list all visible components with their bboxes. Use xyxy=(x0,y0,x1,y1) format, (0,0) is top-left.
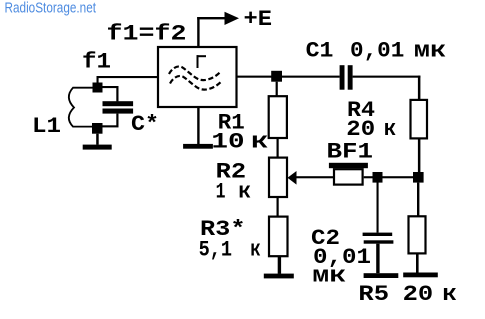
svg-text:f1: f1 xyxy=(82,50,111,75)
ground under filter box xyxy=(183,144,213,149)
node B junction square xyxy=(413,172,424,183)
resistor R4 xyxy=(411,100,428,138)
wire BF1 right to node B xyxy=(364,176,414,178)
wire filter box bottom xyxy=(197,107,199,144)
wire R4 to node B xyxy=(418,138,421,172)
junction square bottom of L1 xyxy=(92,123,103,134)
filter box U1 xyxy=(158,47,237,107)
svg-text:0,01: 0,01 xyxy=(350,39,404,64)
ground under R3 xyxy=(264,274,294,279)
power +E arrowhead xyxy=(225,12,240,25)
wire filter box left to node f1 xyxy=(97,76,159,84)
svg-text:к: к xyxy=(238,179,251,204)
wire +E riser xyxy=(197,17,226,48)
svg-text:5,1: 5,1 xyxy=(199,237,232,262)
svg-text:+E: +E xyxy=(244,7,273,32)
wire node A to C1 xyxy=(282,76,340,78)
wire wiper to BF1 xyxy=(297,176,334,178)
svg-text:20: 20 xyxy=(403,282,434,307)
capacitor C1 xyxy=(340,65,353,90)
wire R1 to R2 xyxy=(277,138,279,158)
R2 wiper arrowhead xyxy=(288,171,297,185)
filter wave 2 xyxy=(170,76,222,90)
wire R1 node A to R1 top xyxy=(276,82,278,97)
ground under L1 xyxy=(83,134,112,150)
filter wave 1 xyxy=(169,66,221,80)
node f1 junction (top square) xyxy=(93,83,103,93)
resistor R1 xyxy=(269,96,287,138)
svg-text:к: к xyxy=(251,129,269,154)
capacitor C2 xyxy=(363,233,394,244)
wire R5 to ground xyxy=(416,253,419,272)
inductor L1 xyxy=(69,88,93,127)
wire node f1 to capacitor C* xyxy=(103,86,119,101)
svg-text:20: 20 xyxy=(346,117,375,142)
wire C2 to ground xyxy=(376,244,379,274)
svg-text:f1=f2: f1=f2 xyxy=(107,22,187,47)
wire R3 to ground xyxy=(278,256,281,274)
resistor R3 xyxy=(269,217,288,257)
svg-text:C*: C* xyxy=(131,112,159,137)
svg-text:BF1: BF1 xyxy=(327,140,374,165)
svg-text:RadioStorage.net: RadioStorage.net xyxy=(5,1,97,17)
svg-text:к: к xyxy=(250,237,260,262)
ground under R5 xyxy=(403,273,438,278)
wire C* bottom xyxy=(100,114,119,128)
capacitor C* xyxy=(103,101,134,113)
svg-text:R5: R5 xyxy=(358,282,389,307)
wire C1 to R4 xyxy=(353,76,421,100)
wire R2 to R3 xyxy=(277,197,279,217)
ground under C2 xyxy=(364,273,399,278)
svg-text:C1: C1 xyxy=(306,39,334,64)
svg-text:1: 1 xyxy=(216,179,226,204)
wire filter box right to node A xyxy=(237,76,272,78)
wire node C down to C2 xyxy=(377,183,379,233)
svg-text:L1: L1 xyxy=(32,114,61,139)
node A junction square xyxy=(271,71,282,82)
svg-text:мк: мк xyxy=(414,39,447,64)
svg-text:к: к xyxy=(442,282,457,307)
potentiometer R2 xyxy=(269,158,287,197)
svg-text:мк: мк xyxy=(312,263,346,288)
svg-text:10: 10 xyxy=(211,129,244,154)
wire node B to R5 xyxy=(417,183,419,217)
label Г inside filter xyxy=(197,55,207,68)
resistor R5 xyxy=(409,216,426,253)
node C junction square (BF1 output) xyxy=(373,172,383,183)
sounder BF1 xyxy=(329,163,368,185)
svg-text:к: к xyxy=(384,117,397,142)
